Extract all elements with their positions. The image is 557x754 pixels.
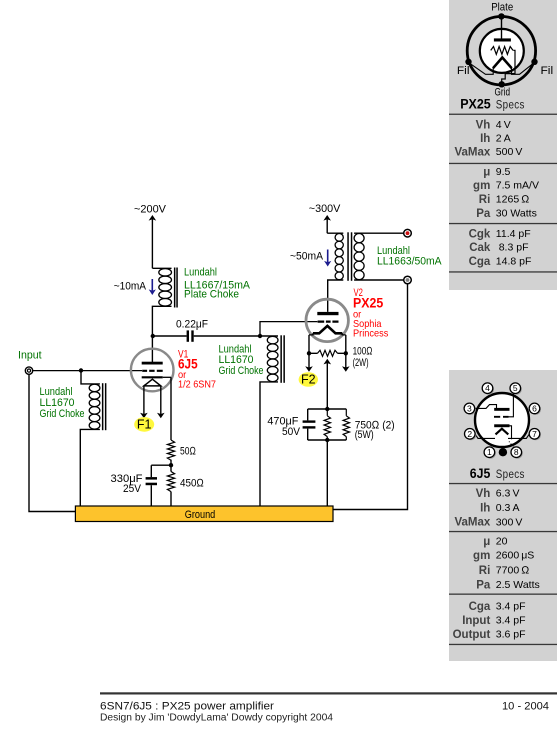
terminal output minus — [404, 276, 412, 284]
svg-text:7: 7 — [532, 429, 537, 439]
svg-text:Ground: Ground — [185, 509, 216, 521]
svg-text:Plate Choke: Plate Choke — [184, 289, 239, 301]
wire R2 to ground — [170, 492, 172, 506]
svg-text:(5W): (5W) — [355, 429, 374, 441]
node ~300V supply — [309, 203, 341, 233]
junction filament left — [307, 351, 311, 355]
svg-text:8: 8 — [514, 447, 519, 457]
svg-text:Vh: Vh — [476, 488, 491, 500]
svg-text:1265 Ω: 1265 Ω — [496, 194, 530, 206]
current arrow ~10mA — [114, 279, 156, 295]
node F2 heater — [299, 372, 318, 387]
svg-text:7.5 mA/V: 7.5 mA/V — [496, 180, 539, 192]
svg-text:Pa: Pa — [476, 580, 491, 592]
svg-text:20: 20 — [496, 535, 508, 547]
svg-text:50Ω: 50Ω — [180, 445, 196, 457]
svg-text:Ih: Ih — [480, 133, 490, 145]
wire center tap with up arrow — [324, 359, 332, 409]
6J5 Specs title — [470, 466, 525, 481]
svg-text:11.4 pF: 11.4 pF — [496, 228, 531, 240]
svg-text:25V: 25V — [123, 483, 142, 495]
junction filament right — [344, 351, 348, 355]
svg-text:50V: 50V — [282, 426, 301, 438]
PX25 Specs title — [460, 96, 525, 111]
triode V1 6J5 — [131, 349, 174, 392]
wire cathode to ground — [326, 440, 328, 506]
svg-text:5: 5 — [513, 383, 518, 393]
svg-text:3.4 pF: 3.4 pF — [496, 615, 526, 627]
svg-text:7700 Ω: 7700 Ω — [496, 565, 530, 577]
svg-text:~10mA: ~10mA — [114, 281, 147, 293]
svg-text:Cgk: Cgk — [469, 229, 491, 241]
svg-text:Ih: Ih — [480, 503, 490, 515]
sidebar panel PX25 specs background — [449, 0, 557, 290]
svg-text:3.6 pF: 3.6 pF — [496, 629, 526, 641]
tube base diagram 6J5 — [464, 383, 541, 459]
svg-text:~200V: ~200V — [134, 204, 167, 216]
junction V2 grid node — [258, 334, 262, 338]
svg-text:6SN7/6J5 : PX25 power amplifie: 6SN7/6J5 : PX25 power amplifier — [100, 701, 274, 713]
wire input to V1 grid — [33, 370, 142, 372]
6J5 spec table — [449, 483, 557, 645]
svg-text:Ri: Ri — [479, 565, 491, 577]
wire V1 cathode down — [170, 377, 172, 440]
label T1 value — [377, 245, 442, 268]
junction cathode top — [325, 407, 329, 411]
svg-text:0.3 A: 0.3 A — [496, 502, 520, 514]
ground bus bar — [75, 506, 333, 522]
triode V2 PX25 — [306, 299, 348, 341]
inductor L2 Lundahl LL1670 grid choke — [80, 371, 106, 507]
tube base diagram PX25 — [457, 2, 553, 99]
svg-text:300 V: 300 V — [496, 516, 523, 528]
svg-text:2.5 Watts: 2.5 Watts — [496, 579, 540, 591]
svg-text:30 Watts: 30 Watts — [496, 208, 537, 220]
svg-text:Cga: Cga — [469, 601, 491, 613]
inductor L3 Lundahl LL1670 grid choke — [260, 335, 285, 506]
svg-text:Input: Input — [18, 350, 42, 362]
svg-text:Output: Output — [453, 629, 491, 641]
svg-text:1: 1 — [487, 447, 492, 457]
svg-text:Input: Input — [462, 615, 490, 627]
svg-text:Vh: Vh — [476, 119, 491, 131]
svg-text:3.4 pF: 3.4 pF — [496, 601, 526, 613]
svg-text:14.8 pF: 14.8 pF — [496, 256, 532, 268]
svg-text:F1: F1 — [137, 418, 152, 432]
transformer T1 Lundahl LL1663 output — [327, 232, 404, 312]
svg-text:6.3 V: 6.3 V — [496, 488, 520, 500]
V1 heater leads — [140, 386, 165, 418]
svg-text:Pa: Pa — [476, 208, 491, 220]
capacitor C1 0.22uF coupling — [153, 319, 260, 342]
svg-text:(2W): (2W) — [353, 357, 369, 369]
svg-text:2 A: 2 A — [496, 133, 511, 145]
svg-text:2600 μS: 2600 μS — [496, 550, 535, 562]
svg-text:Fil: Fil — [541, 65, 554, 77]
node Input terminal — [18, 350, 42, 375]
svg-text:1/2 6SN7: 1/2 6SN7 — [178, 379, 216, 391]
svg-text:2: 2 — [467, 429, 472, 439]
svg-text:3: 3 — [467, 403, 472, 413]
svg-text:6J5: 6J5 — [470, 466, 491, 481]
svg-text:LL1663/50mA: LL1663/50mA — [377, 256, 442, 268]
label L3 value — [219, 343, 264, 377]
svg-text:Specs: Specs — [496, 99, 525, 111]
svg-text:4: 4 — [485, 383, 490, 393]
wire R1 to junction — [170, 460, 172, 472]
svg-text:10 - 2004: 10 - 2004 — [502, 701, 549, 713]
svg-text:Design by Jim 'DowdyLama' Dowd: Design by Jim 'DowdyLama' Dowdy copyrigh… — [100, 712, 333, 723]
svg-text:VaMax: VaMax — [454, 517, 490, 529]
wire output return to ground — [333, 284, 408, 510]
svg-text:Grid Choke: Grid Choke — [40, 408, 85, 420]
svg-text:Princess: Princess — [353, 327, 388, 339]
svg-text:~300V: ~300V — [309, 203, 341, 215]
svg-text:450Ω: 450Ω — [180, 478, 204, 490]
V2 filament supply arrows — [305, 353, 349, 372]
junction coupling node — [151, 334, 155, 338]
svg-text:Plate: Plate — [491, 2, 513, 14]
junction cathode node — [169, 463, 173, 467]
svg-text:F2: F2 — [301, 373, 316, 387]
svg-text:μ: μ — [483, 536, 490, 548]
wire input ground return — [29, 374, 75, 511]
svg-text:Lundahl: Lundahl — [184, 267, 217, 279]
wire junction to V2 grid — [260, 322, 317, 336]
current arrow ~50mA — [290, 250, 331, 267]
capacitor C3 470uF with resistors R4 R5 750ohm — [267, 409, 394, 441]
node ~200V supply — [134, 204, 167, 269]
svg-text:500 V: 500 V — [496, 146, 523, 158]
terminal output plus — [404, 229, 412, 237]
svg-text:Grid Choke: Grid Choke — [219, 365, 264, 377]
svg-text:0.22μF: 0.22μF — [176, 319, 208, 331]
svg-text:Cga: Cga — [469, 256, 491, 268]
wire V2 filament legs — [309, 335, 346, 353]
svg-text:100Ω: 100Ω — [353, 346, 373, 358]
svg-text:VaMax: VaMax — [454, 147, 490, 159]
svg-text:8.3 pF: 8.3 pF — [496, 242, 529, 254]
svg-text:Grid: Grid — [495, 87, 511, 99]
svg-text:μ: μ — [483, 167, 490, 179]
wire choke to V1 plate — [151, 336, 153, 362]
inductor L1 Lundahl LL1667 plate choke — [152, 268, 177, 337]
svg-text:~50mA: ~50mA — [290, 251, 324, 263]
resistor R1 50ohm — [167, 440, 196, 460]
junction cathode bottom — [325, 438, 329, 442]
svg-text:Specs: Specs — [496, 469, 525, 481]
svg-text:gm: gm — [473, 550, 490, 562]
footer rule — [100, 692, 557, 694]
PX25 spec table — [449, 114, 557, 273]
svg-text:PX25: PX25 — [460, 96, 491, 111]
resistor R3 100ohm hum balance — [309, 346, 373, 370]
svg-text:Ri: Ri — [479, 194, 491, 206]
junction input node — [79, 368, 83, 372]
label L1 value — [184, 267, 251, 301]
label L2 value — [40, 386, 85, 420]
node F1 heater — [134, 417, 154, 432]
svg-text:9.5: 9.5 — [496, 166, 511, 178]
svg-text:6: 6 — [532, 403, 537, 413]
sidebar panel 6J5 specs background — [449, 370, 557, 661]
svg-text:Cak: Cak — [469, 242, 491, 254]
label V1 designator — [178, 349, 216, 391]
resistor R2 450ohm — [167, 472, 204, 492]
svg-text:4 V: 4 V — [496, 119, 511, 131]
capacitor C2 330uF bypass — [111, 465, 172, 506]
svg-text:Fil: Fil — [457, 65, 470, 77]
label V2 designator — [353, 287, 388, 339]
svg-text:gm: gm — [473, 180, 490, 192]
